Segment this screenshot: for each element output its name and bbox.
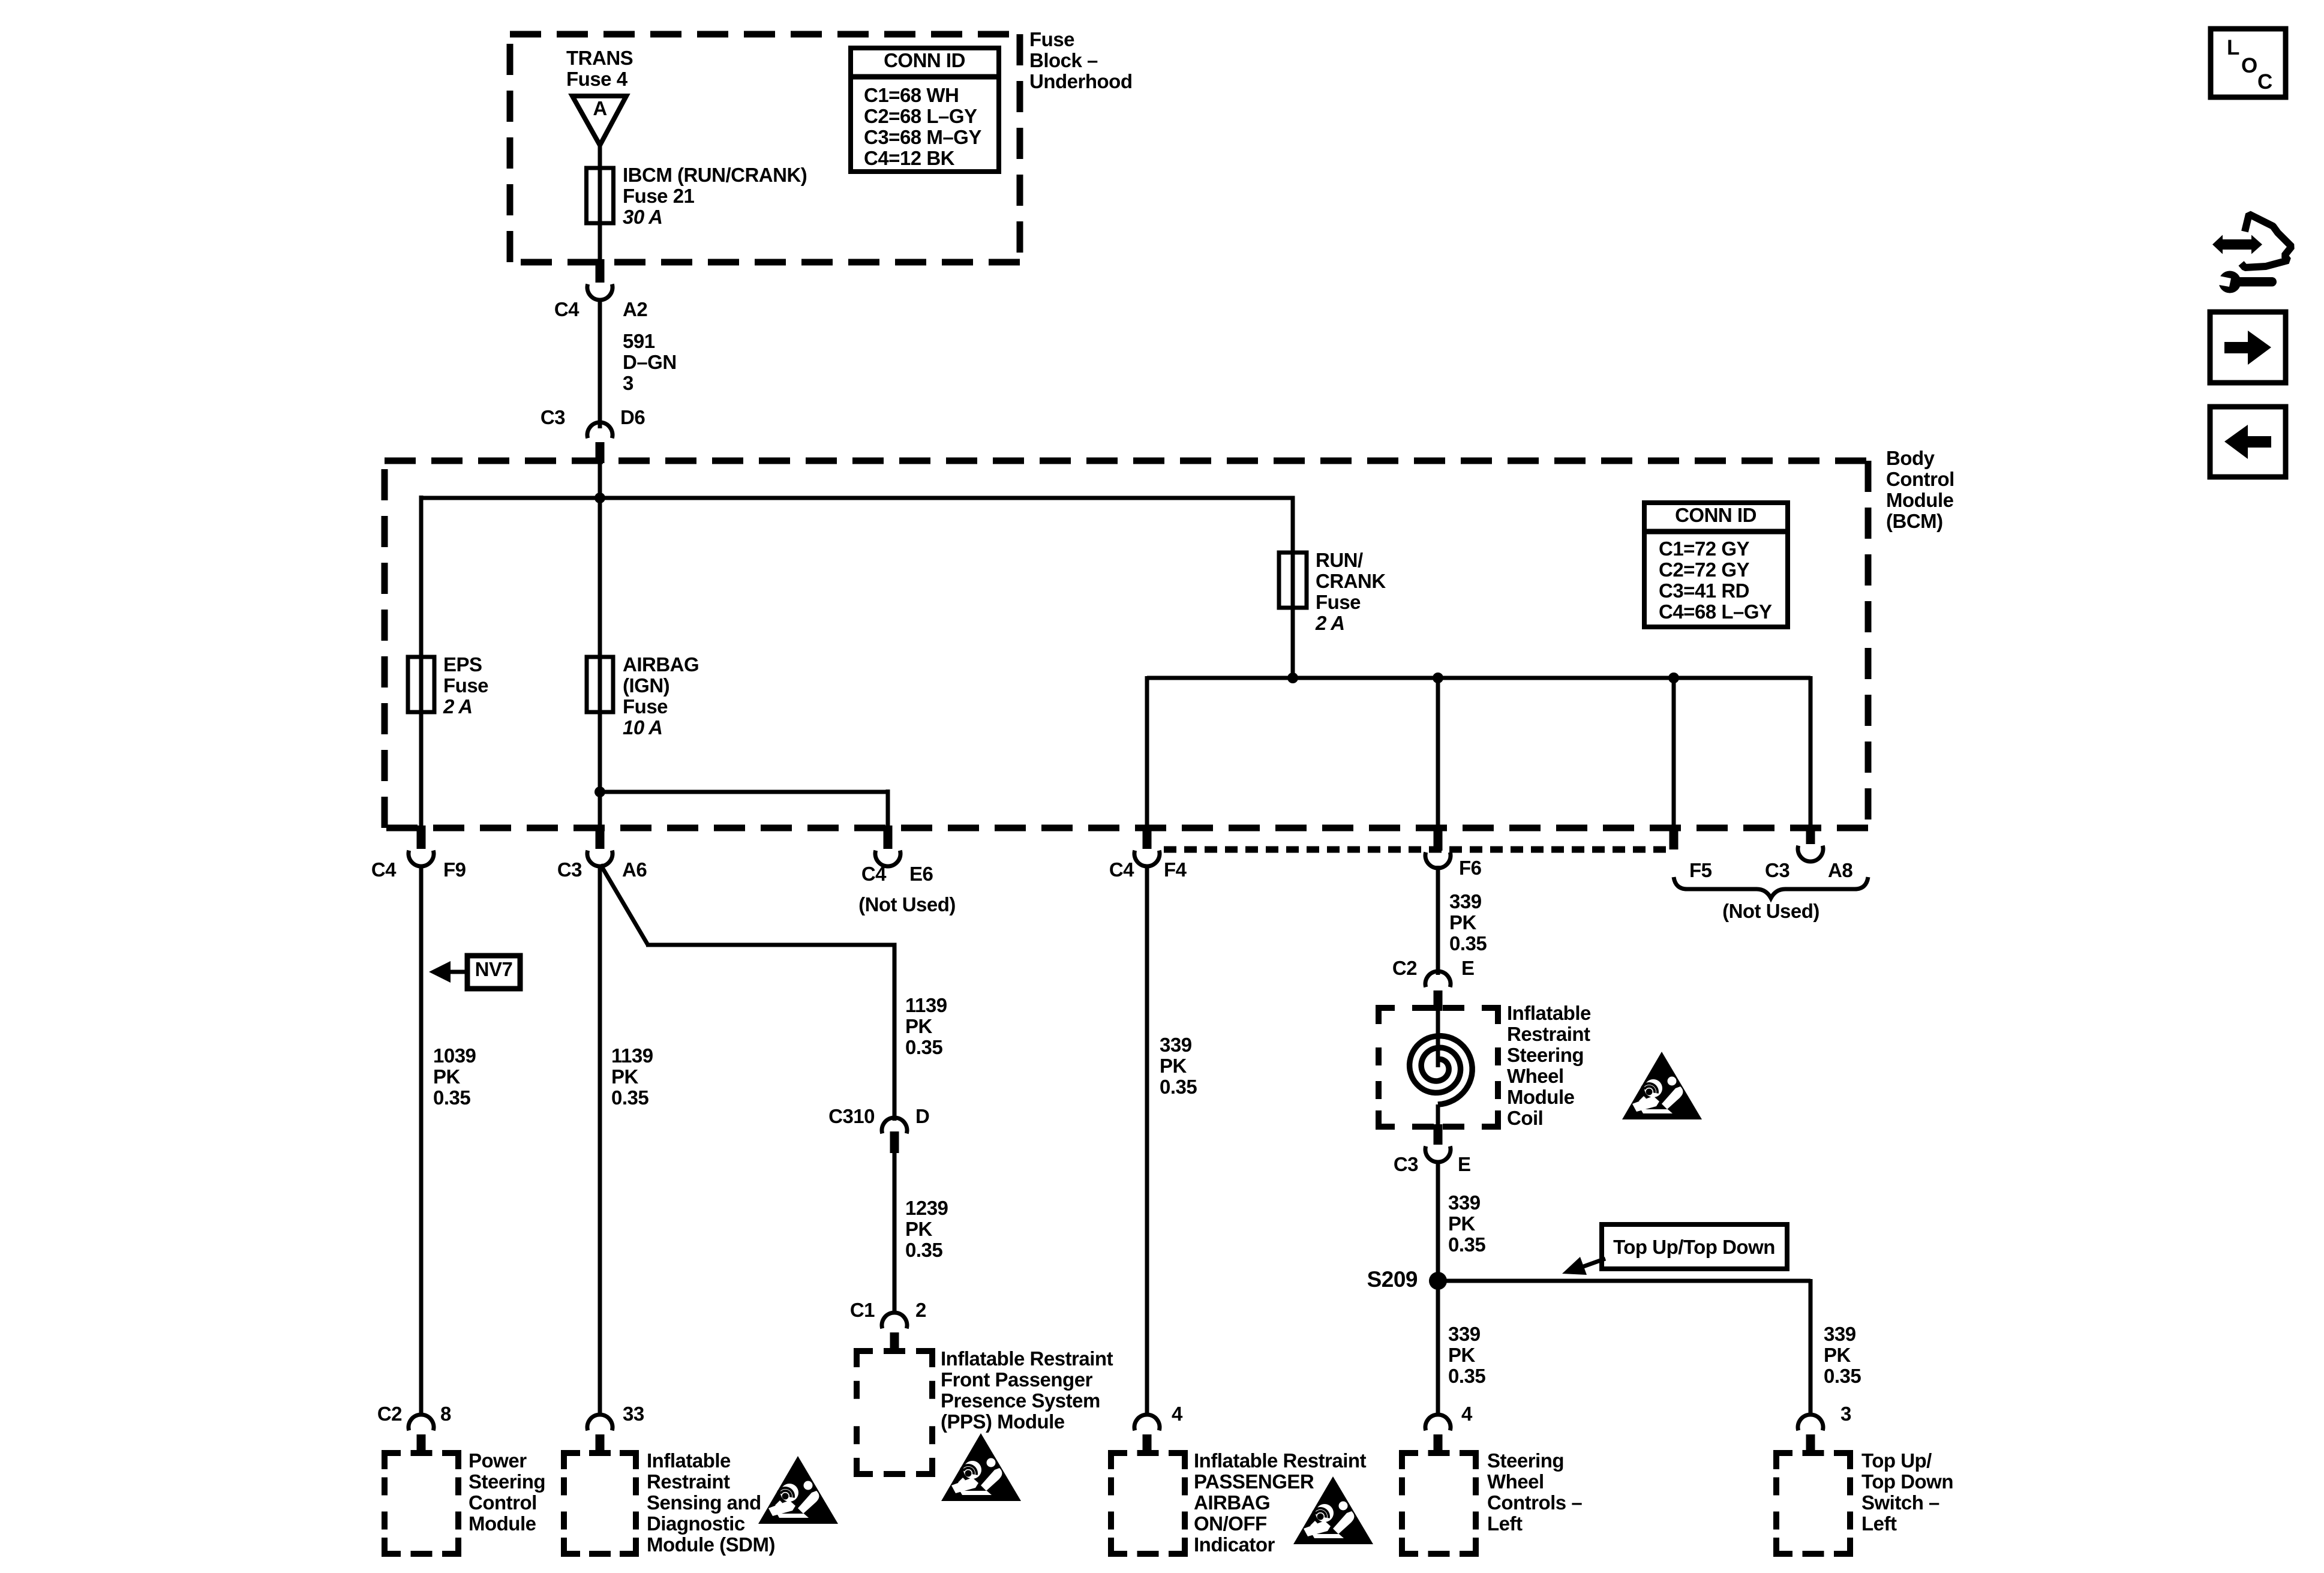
svg-text:Fuse: Fuse bbox=[623, 695, 668, 718]
svg-text:Indicator: Indicator bbox=[1194, 1533, 1275, 1556]
svg-text:PASSENGER: PASSENGER bbox=[1194, 1470, 1314, 1493]
wire branch horizontal to PPS bbox=[646, 943, 897, 947]
svg-text:E: E bbox=[1458, 1153, 1471, 1175]
svg-text:0.35: 0.35 bbox=[905, 1239, 942, 1261]
svg-text:1239: 1239 bbox=[905, 1197, 948, 1219]
icon next-page arrow box bbox=[2210, 312, 2286, 383]
svg-text:C2=72 GY: C2=72 GY bbox=[1659, 559, 1749, 581]
svg-text:Control: Control bbox=[1886, 468, 1954, 490]
svg-text:339: 339 bbox=[1160, 1034, 1192, 1056]
svg-text:A: A bbox=[593, 97, 606, 119]
svg-text:PK: PK bbox=[1160, 1055, 1187, 1077]
wire bus2 horizontal bbox=[1147, 676, 1810, 680]
svg-text:Control: Control bbox=[469, 1491, 537, 1514]
module box SDM bbox=[564, 1453, 580, 1469]
svg-text:339: 339 bbox=[1449, 890, 1482, 912]
connector pin4 (indicator entry) bbox=[1134, 1415, 1160, 1430]
connector C3 E (coil exit) bbox=[1434, 1124, 1443, 1145]
svg-text:Module: Module bbox=[1507, 1086, 1575, 1108]
wire RUN/CRANK branch vertical bbox=[1291, 498, 1295, 678]
brace F5-A8 not used bbox=[1674, 877, 1868, 898]
svg-text:Inflatable Restraint: Inflatable Restraint bbox=[941, 1347, 1113, 1370]
svg-text:Fuse: Fuse bbox=[443, 674, 488, 697]
wire A6 to SDM bbox=[598, 866, 602, 1416]
wire A8 drop bbox=[1809, 676, 1813, 830]
callout box Top Up/Top Down bbox=[1602, 1224, 1787, 1269]
airbag warning triangle (indicator) bbox=[1293, 1476, 1373, 1544]
wire F6 drop bbox=[1436, 678, 1440, 830]
svg-text:Switch –: Switch – bbox=[1861, 1491, 1939, 1514]
module box Steering Wheel Module Coil bbox=[1379, 1008, 1498, 1127]
wire to switch bbox=[1809, 1279, 1813, 1416]
svg-text:TRANS: TRANS bbox=[566, 47, 633, 69]
svg-text:Top Up/Top Down: Top Up/Top Down bbox=[1613, 1236, 1775, 1258]
svg-text:PK: PK bbox=[905, 1218, 933, 1240]
svg-text:339: 339 bbox=[1448, 1191, 1481, 1214]
airbag warning triangle (PPS) bbox=[941, 1433, 1021, 1501]
svg-text:C2=68 L–GY: C2=68 L–GY bbox=[864, 105, 977, 127]
icon LOC box bbox=[2211, 29, 2286, 97]
svg-text:Restraint: Restraint bbox=[647, 1470, 730, 1493]
svg-text:Body: Body bbox=[1886, 447, 1935, 469]
connector C3 A8 not used (BCM exit) bbox=[1806, 825, 1815, 844]
wire down to C310 bbox=[893, 943, 897, 1121]
wire S209 to controls bbox=[1436, 1281, 1440, 1416]
module box Power Steering Control Module bbox=[385, 1453, 401, 1469]
svg-text:E6: E6 bbox=[909, 863, 933, 885]
svg-text:Steering: Steering bbox=[1487, 1449, 1564, 1472]
svg-text:Left: Left bbox=[1487, 1512, 1523, 1535]
svg-text:CONN ID: CONN ID bbox=[1675, 504, 1756, 526]
svg-text:PK: PK bbox=[905, 1015, 933, 1037]
icon service double arrow bbox=[2212, 235, 2262, 254]
svg-text:C3: C3 bbox=[1394, 1153, 1418, 1175]
svg-text:C3: C3 bbox=[557, 858, 582, 881]
svg-text:Top Down: Top Down bbox=[1861, 1470, 1953, 1493]
svg-text:Power: Power bbox=[469, 1449, 527, 1472]
connector C310 D (inline) bbox=[882, 1118, 907, 1133]
svg-text:Fuse 21: Fuse 21 bbox=[623, 185, 695, 207]
wire S209 branch to switch bbox=[1438, 1279, 1810, 1283]
svg-text:0.35: 0.35 bbox=[1448, 1365, 1485, 1387]
svg-text:NV7: NV7 bbox=[475, 958, 513, 980]
svg-text:Underhood: Underhood bbox=[1029, 70, 1132, 92]
module box PPS bbox=[857, 1351, 873, 1367]
svg-text:Inflatable Restraint: Inflatable Restraint bbox=[1194, 1449, 1367, 1472]
svg-text:Steering: Steering bbox=[469, 1470, 545, 1493]
wire F9 to PSCM bbox=[419, 866, 424, 1416]
connector C4 F4 (BCM exit) bbox=[1143, 825, 1152, 849]
svg-text:D6: D6 bbox=[620, 406, 645, 428]
svg-text:C1: C1 bbox=[850, 1299, 875, 1321]
junction dot AIRBAG-E6 branch bbox=[594, 786, 605, 797]
svg-text:A8: A8 bbox=[1828, 859, 1852, 881]
svg-text:Fuse: Fuse bbox=[1029, 28, 1074, 50]
svg-text:E: E bbox=[1461, 957, 1475, 979]
svg-text:Block –: Block – bbox=[1029, 49, 1098, 71]
svg-text:Front Passenger: Front Passenger bbox=[941, 1368, 1093, 1391]
svg-text:F5: F5 bbox=[1689, 859, 1712, 881]
junction dot bus2 RUN/CRANK bbox=[1287, 673, 1298, 683]
module box Fuse Block - Underhood (dashed) bbox=[510, 31, 1020, 38]
svg-text:L: L bbox=[2227, 36, 2239, 59]
fuse AIRBAG (IGN) 10A bbox=[587, 657, 613, 712]
svg-text:3: 3 bbox=[623, 372, 633, 394]
svg-text:339: 339 bbox=[1824, 1323, 1856, 1345]
svg-text:3: 3 bbox=[1840, 1403, 1851, 1425]
svg-text:(IGN): (IGN) bbox=[623, 674, 669, 697]
junction splice S209 bbox=[1429, 1272, 1447, 1290]
svg-text:339: 339 bbox=[1448, 1323, 1481, 1345]
svg-text:1039: 1039 bbox=[433, 1044, 476, 1067]
wire F4 drop bbox=[1145, 676, 1149, 830]
svg-text:Inflatable: Inflatable bbox=[1507, 1002, 1591, 1024]
svg-text:C4: C4 bbox=[554, 298, 580, 320]
svg-text:10 A: 10 A bbox=[623, 716, 662, 739]
svg-text:D–GN: D–GN bbox=[623, 351, 677, 373]
connector C3 D6 (BCM entry) bbox=[587, 422, 612, 438]
svg-text:0.35: 0.35 bbox=[1448, 1233, 1485, 1256]
svg-text:F9: F9 bbox=[443, 858, 466, 881]
wire EPS branch vertical bbox=[419, 496, 424, 830]
svg-text:AIRBAG: AIRBAG bbox=[1194, 1491, 1270, 1514]
svg-text:Fuse 4: Fuse 4 bbox=[566, 68, 628, 90]
svg-text:C2: C2 bbox=[1392, 957, 1417, 979]
svg-text:Wheel: Wheel bbox=[1507, 1065, 1564, 1087]
connector C4 A2 (fuse block exit) bbox=[596, 259, 605, 283]
svg-text:EPS: EPS bbox=[443, 653, 482, 676]
wire F5 drop bbox=[1672, 678, 1676, 830]
module box PASSENGER AIRBAG ON/OFF Indicator bbox=[1111, 1453, 1127, 1469]
svg-text:1139: 1139 bbox=[905, 994, 947, 1016]
svg-text:Wheel: Wheel bbox=[1487, 1470, 1544, 1493]
svg-text:1139: 1139 bbox=[611, 1044, 653, 1067]
junction dot bus2 F6 bbox=[1433, 673, 1443, 683]
airbag warning triangle (SDM) bbox=[758, 1456, 838, 1524]
svg-text:4: 4 bbox=[1172, 1403, 1183, 1425]
svg-text:0.35: 0.35 bbox=[1449, 932, 1487, 954]
svg-text:C2: C2 bbox=[377, 1403, 402, 1425]
arrow NV7 to wire bbox=[449, 970, 469, 974]
svg-text:2: 2 bbox=[915, 1299, 926, 1321]
svg-text:S209: S209 bbox=[1367, 1267, 1418, 1292]
svg-text:CRANK: CRANK bbox=[1316, 570, 1386, 592]
svg-text:PK: PK bbox=[1449, 911, 1477, 933]
svg-text:C1=68 WH: C1=68 WH bbox=[864, 84, 959, 106]
svg-text:Top Up/: Top Up/ bbox=[1861, 1449, 1932, 1472]
airbag warning triangle (coil) bbox=[1622, 1052, 1702, 1119]
svg-text:0.35: 0.35 bbox=[1824, 1365, 1861, 1387]
wire TRANS fuse to IBCM fuse bbox=[598, 145, 602, 265]
wire AIRBAG branch vertical bbox=[598, 498, 602, 830]
svg-text:0.35: 0.35 bbox=[905, 1036, 942, 1058]
connector F5 not used (bar only) bbox=[1670, 825, 1679, 849]
svg-text:Controls –: Controls – bbox=[1487, 1491, 1582, 1514]
arrow Top Up/Top Down callout bbox=[1582, 1259, 1605, 1267]
svg-text:C4: C4 bbox=[861, 863, 887, 885]
wire 1239 PK 0.35 bbox=[893, 1153, 897, 1314]
svg-text:30 A: 30 A bbox=[623, 206, 662, 228]
svg-text:D: D bbox=[915, 1105, 929, 1127]
svg-text:Fuse: Fuse bbox=[1316, 591, 1361, 613]
svg-text:0.35: 0.35 bbox=[433, 1086, 470, 1109]
connector pin33 (SDM entry) bbox=[587, 1415, 612, 1430]
svg-text:A2: A2 bbox=[623, 298, 647, 320]
svg-text:PK: PK bbox=[1824, 1344, 1851, 1366]
svg-text:Inflatable: Inflatable bbox=[647, 1449, 731, 1472]
svg-text:C3=68 M–GY: C3=68 M–GY bbox=[864, 126, 981, 148]
svg-text:0.35: 0.35 bbox=[611, 1086, 648, 1109]
svg-text:PK: PK bbox=[1448, 1344, 1476, 1366]
junction dot bus2 F5 bbox=[1668, 673, 1679, 683]
svg-text:Restraint: Restraint bbox=[1507, 1023, 1590, 1045]
svg-text:2 A: 2 A bbox=[443, 695, 473, 718]
connector C3 A6 (BCM exit) bbox=[596, 825, 605, 849]
svg-text:Module (SDM): Module (SDM) bbox=[647, 1533, 775, 1556]
connector C4 E6 not used (BCM exit) bbox=[884, 825, 893, 849]
connector pin4 (controls entry) bbox=[1425, 1415, 1451, 1430]
svg-text:C: C bbox=[2257, 70, 2272, 94]
svg-text:ON/OFF: ON/OFF bbox=[1194, 1512, 1267, 1535]
svg-text:C1=72 GY: C1=72 GY bbox=[1659, 538, 1749, 560]
svg-text:Module: Module bbox=[469, 1512, 536, 1535]
svg-text:Left: Left bbox=[1861, 1512, 1897, 1535]
svg-text:C4=68 L–GY: C4=68 L–GY bbox=[1659, 601, 1772, 623]
connector C1 pin2 (PPS entry) bbox=[882, 1313, 907, 1328]
connector C2 pin8 (PSCM entry) bbox=[409, 1415, 434, 1430]
wire 591 D-GN 3 bbox=[598, 300, 602, 428]
svg-text:(Not Used): (Not Used) bbox=[858, 893, 956, 915]
wire bus from D6 down bbox=[598, 460, 602, 498]
svg-text:PK: PK bbox=[1448, 1212, 1476, 1235]
svg-text:C4: C4 bbox=[1109, 858, 1134, 881]
svg-text:F4: F4 bbox=[1164, 858, 1187, 881]
svg-text:(Not Used): (Not Used) bbox=[1722, 900, 1819, 922]
svg-text:RUN/: RUN/ bbox=[1316, 549, 1363, 571]
module box Steering Wheel Controls Left bbox=[1402, 1453, 1418, 1469]
svg-text:C310: C310 bbox=[828, 1105, 875, 1127]
wire F4 to indicator bbox=[1145, 866, 1149, 1416]
svg-text:Module: Module bbox=[1886, 489, 1954, 511]
fuse F21 IBCM (RUN/CRANK) 30 A bbox=[587, 168, 614, 223]
wire F6 to C2 E bbox=[1436, 866, 1440, 975]
fuse EPS 2A bbox=[408, 657, 434, 712]
svg-text:(PPS) Module: (PPS) Module bbox=[941, 1410, 1065, 1433]
module box Top Up/Top Down Switch Left bbox=[1776, 1453, 1792, 1469]
table CONN ID (fuse block) bbox=[851, 48, 999, 172]
icon prev-page arrow box bbox=[2210, 407, 2286, 477]
svg-text:591: 591 bbox=[623, 330, 655, 352]
svg-text:A6: A6 bbox=[622, 858, 647, 881]
svg-text:C4=12 BK: C4=12 BK bbox=[864, 147, 955, 169]
svg-text:Diagnostic: Diagnostic bbox=[647, 1512, 745, 1535]
wire A6 diagonal branch bbox=[600, 864, 648, 945]
icon wrench bbox=[2219, 271, 2241, 293]
connector F6 (BCM exit) bbox=[1434, 825, 1443, 851]
table CONN ID (BCM) bbox=[1644, 503, 1788, 627]
icon service outline bbox=[2241, 214, 2292, 268]
dotted connector row line bbox=[1164, 846, 1674, 853]
wire branch to E6 bbox=[600, 790, 890, 794]
svg-text:33: 33 bbox=[623, 1403, 644, 1425]
svg-text:0.35: 0.35 bbox=[1160, 1076, 1197, 1098]
svg-text:AIRBAG: AIRBAG bbox=[623, 653, 699, 676]
svg-text:C3: C3 bbox=[541, 406, 565, 428]
svg-text:F6: F6 bbox=[1459, 857, 1482, 879]
svg-text:Sensing and: Sensing and bbox=[647, 1491, 761, 1514]
svg-text:C3: C3 bbox=[1765, 859, 1789, 881]
svg-text:PK: PK bbox=[433, 1065, 461, 1088]
junction dot bus1 at AIRBAG branch bbox=[594, 493, 605, 503]
svg-text:Steering: Steering bbox=[1507, 1044, 1584, 1066]
svg-text:2 A: 2 A bbox=[1315, 612, 1345, 634]
callout box NV7 bbox=[467, 956, 520, 989]
coil spiral (steering wheel module coil) bbox=[1436, 1010, 1440, 1067]
svg-text:PK: PK bbox=[611, 1065, 639, 1088]
svg-text:C4: C4 bbox=[371, 858, 397, 881]
svg-text:C3=41 RD: C3=41 RD bbox=[1659, 580, 1749, 602]
fuse RUN/CRANK 2A bbox=[1279, 553, 1307, 608]
svg-text:O: O bbox=[2241, 54, 2257, 77]
module box Body Control Module BCM (dashed) bbox=[385, 458, 1868, 464]
svg-text:8: 8 bbox=[440, 1403, 451, 1425]
svg-text:IBCM (RUN/CRANK): IBCM (RUN/CRANK) bbox=[623, 164, 807, 186]
wire coil to S209 bbox=[1436, 1160, 1440, 1281]
connector C2 E (coil entry) bbox=[1425, 971, 1451, 987]
power feed triangle A (TRANS Fuse 4) bbox=[572, 96, 626, 145]
svg-text:(BCM): (BCM) bbox=[1886, 510, 1943, 532]
svg-text:4: 4 bbox=[1461, 1403, 1473, 1425]
connector pin3 (switch entry) bbox=[1798, 1415, 1823, 1430]
wire bus1 horizontal bbox=[421, 496, 1295, 500]
svg-text:CONN ID: CONN ID bbox=[884, 49, 965, 71]
svg-text:Presence System: Presence System bbox=[941, 1389, 1100, 1412]
svg-text:Coil: Coil bbox=[1507, 1107, 1543, 1129]
connector C4 F9 (BCM exit) bbox=[417, 825, 426, 849]
